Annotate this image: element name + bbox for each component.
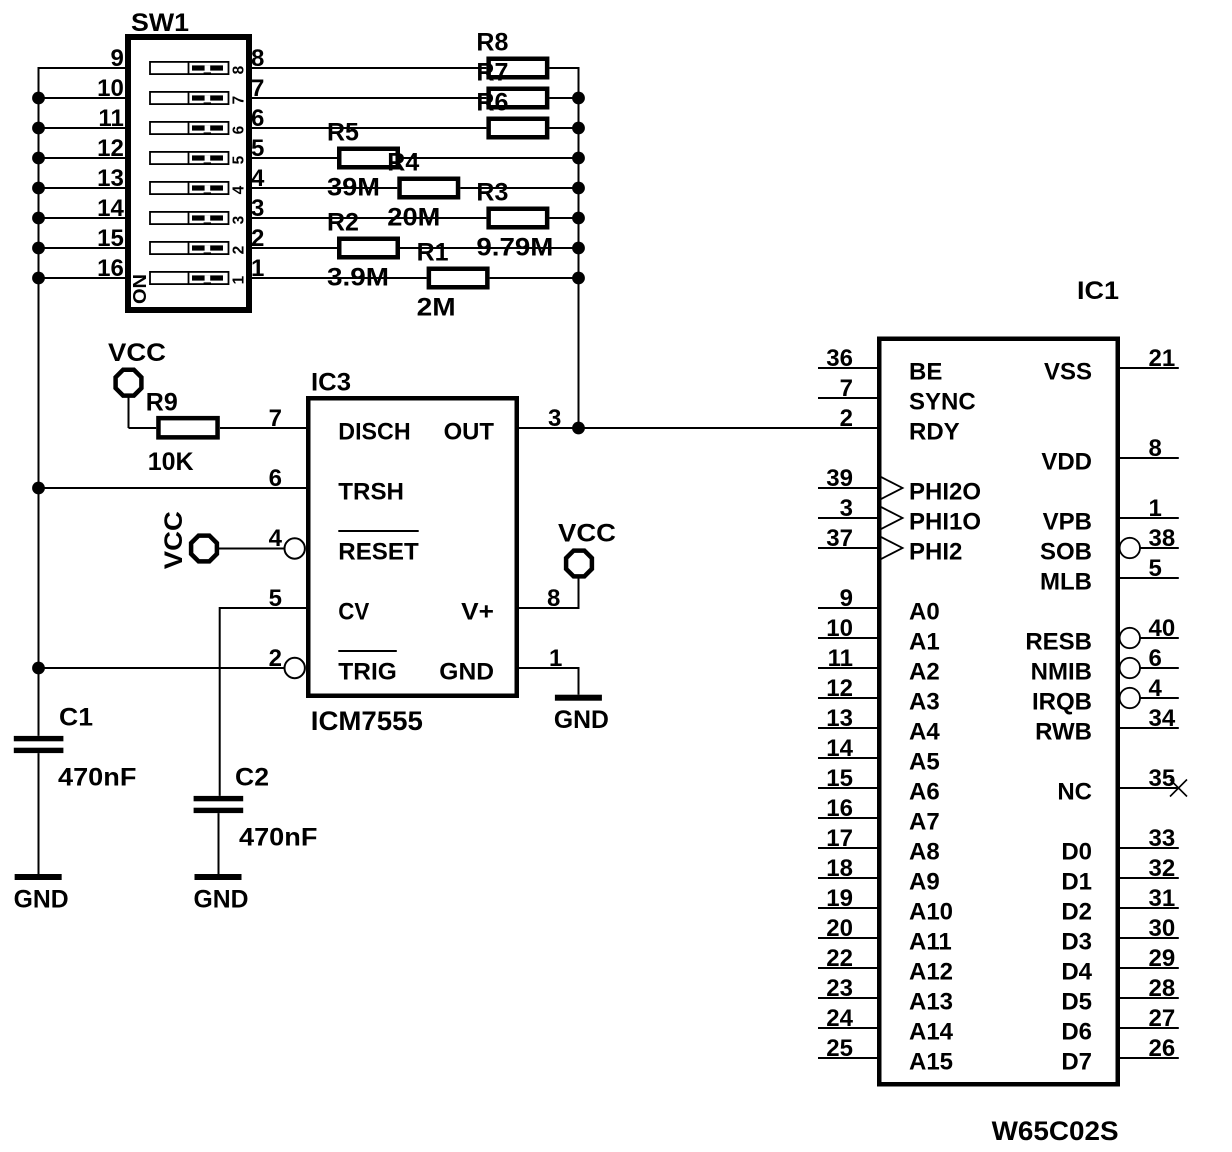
svg-text:39M: 39M <box>327 174 380 202</box>
svg-text:8: 8 <box>231 65 248 74</box>
IC1 pin 17 (A8) <box>818 825 940 865</box>
wire: CV pin 5 corner from C2 <box>220 607 306 609</box>
wire: resistor to right bus (row 8) <box>549 67 579 69</box>
svg-text:RDY: RDY <box>909 418 960 445</box>
IC1 pin 6 (NMIB) <box>1031 645 1179 685</box>
svg-text:23: 23 <box>826 975 853 1002</box>
wire: SW1 pin 8 to resistor <box>252 67 486 69</box>
svg-text:7: 7 <box>840 375 853 402</box>
wire: resistor to right bus (row 1) <box>490 277 580 279</box>
svg-text:VCC: VCC <box>108 339 166 367</box>
svg-text:8: 8 <box>1149 435 1162 462</box>
svg-text:VCC: VCC <box>558 520 616 548</box>
IC1 pin 1 (VPB) <box>1043 495 1179 535</box>
wire: SW1 pin 6 to resistor <box>252 127 486 129</box>
junction dot on right bus <box>572 152 585 165</box>
svg-text:3: 3 <box>231 215 248 224</box>
svg-text:C1: C1 <box>59 704 93 732</box>
svg-text:CV: CV <box>338 598 369 625</box>
svg-text:18: 18 <box>826 855 853 882</box>
svg-text:VPB: VPB <box>1043 508 1092 535</box>
junction dot on right bus <box>572 122 585 135</box>
IC1 pin 18 (A9) <box>818 855 940 895</box>
svg-text:W65C02S: W65C02S <box>992 1116 1119 1146</box>
svg-text:10: 10 <box>97 75 124 102</box>
junction dot on left bus <box>32 152 45 165</box>
wire: resistor to right bus (row 2) <box>400 247 580 249</box>
junction dot on left bus <box>32 212 45 225</box>
svg-text:13: 13 <box>826 705 853 732</box>
IC1 pin 36 (BE) <box>818 345 942 385</box>
svg-text:A7: A7 <box>909 808 940 835</box>
svg-text:A11: A11 <box>909 928 952 955</box>
svg-text:24: 24 <box>826 1005 853 1032</box>
IC1 pin 10 (A1) <box>818 615 940 655</box>
svg-text:30: 30 <box>1149 915 1176 942</box>
svg-text:PHI2: PHI2 <box>909 538 962 565</box>
power flag VCC (V+) <box>558 520 616 577</box>
wire: left bus to IC3 TRIG pin 2 <box>39 667 285 669</box>
svg-text:SOB: SOB <box>1040 538 1092 565</box>
IC1 pin 39 (PHI2O) <box>818 465 981 505</box>
resistor R8 <box>476 29 547 78</box>
IC1 pin 31 (D2) <box>1061 885 1178 925</box>
IC1 pin 3 (PHI1O) <box>818 495 981 535</box>
junction dot on right bus <box>572 92 585 105</box>
IC1 pin 5 (MLB) <box>1040 555 1179 595</box>
wire: VCC to RESET bubble <box>218 548 285 550</box>
IC1 pin 28 (D5) <box>1061 975 1178 1015</box>
svg-text:3.9M: 3.9M <box>327 264 389 292</box>
svg-text:20: 20 <box>826 915 853 942</box>
svg-text:470nF: 470nF <box>58 764 136 792</box>
svg-text:NMIB: NMIB <box>1031 658 1092 685</box>
svg-text:4: 4 <box>231 185 248 194</box>
junction dot at TRSH node <box>32 482 45 495</box>
junction dot on left bus <box>32 272 45 285</box>
svg-text:R4: R4 <box>387 149 419 177</box>
junction dot on left bus <box>32 182 45 195</box>
svg-text:C2: C2 <box>235 764 269 792</box>
svg-text:11: 11 <box>98 105 123 132</box>
resistor R3 <box>476 179 553 262</box>
svg-text:6: 6 <box>1149 645 1162 672</box>
wire: left bus to IC3 TRSH pin 6 <box>39 487 307 489</box>
wire: left vertical bus from SW1 row9 down to C1 <box>38 67 40 736</box>
svg-text:16: 16 <box>826 795 853 822</box>
IC3 pin name TRIG with overline <box>338 651 397 685</box>
svg-text:VDD: VDD <box>1041 448 1092 475</box>
IC3 TRIG inversion bubble <box>285 658 305 678</box>
svg-text:9.79M: 9.79M <box>476 234 553 262</box>
svg-text:D2: D2 <box>1061 898 1092 925</box>
junction dot on left bus <box>32 92 45 105</box>
svg-text:2: 2 <box>840 405 853 432</box>
wire: left bus to SW1 pin 15 <box>39 247 126 249</box>
svg-text:1: 1 <box>231 275 248 284</box>
ground symbol (C1) <box>14 874 69 914</box>
svg-text:R8: R8 <box>476 29 508 57</box>
svg-text:15: 15 <box>97 225 124 252</box>
svg-text:A1: A1 <box>909 628 940 655</box>
svg-text:D6: D6 <box>1061 1018 1092 1045</box>
wire: left bus to SW1 pin 10 <box>39 97 126 99</box>
svg-text:5: 5 <box>231 155 248 164</box>
wire: SW1 pin 2 to resistor <box>252 247 337 249</box>
svg-text:R7: R7 <box>476 59 508 87</box>
svg-text:35: 35 <box>1149 765 1176 792</box>
svg-text:5: 5 <box>1149 555 1162 582</box>
resistor R9 <box>146 389 218 477</box>
svg-text:26: 26 <box>1149 1035 1176 1062</box>
svg-text:IRQB: IRQB <box>1032 688 1092 715</box>
resistor R7 <box>476 59 547 108</box>
svg-text:RESET: RESET <box>338 538 419 565</box>
resistor R1 <box>417 239 488 322</box>
svg-text:17: 17 <box>826 825 853 852</box>
svg-text:16: 16 <box>97 255 124 282</box>
svg-text:IC1: IC1 <box>1077 277 1119 305</box>
svg-text:A5: A5 <box>909 748 940 775</box>
svg-text:ON: ON <box>130 274 150 304</box>
ground symbol (C2) <box>194 874 249 914</box>
svg-text:1: 1 <box>1149 495 1162 522</box>
IC1 pin 2 (RDY) <box>840 405 960 445</box>
wire: resistor to right bus (row 3) <box>549 217 579 219</box>
svg-text:A3: A3 <box>909 688 940 715</box>
IC1 pin 29 (D4) <box>1061 945 1178 985</box>
svg-text:TRSH: TRSH <box>338 478 404 505</box>
SW1 switch element 1 <box>150 272 229 284</box>
IC1 pin 16 (A7) <box>818 795 940 835</box>
svg-text:20M: 20M <box>387 204 440 232</box>
svg-text:12: 12 <box>97 135 124 162</box>
svg-text:D1: D1 <box>1061 868 1092 895</box>
svg-text:RESB: RESB <box>1025 628 1092 655</box>
svg-text:38: 38 <box>1149 525 1176 552</box>
wire: left bus to SW1 pin 12 <box>39 157 126 159</box>
svg-text:A10: A10 <box>909 898 953 925</box>
svg-text:37: 37 <box>826 525 853 552</box>
power flag VCC (top left) <box>108 339 166 396</box>
IC1 pin 22 (A12) <box>818 945 953 985</box>
wire: SW1 pin 5 to resistor <box>252 157 337 159</box>
wire: SW1 pin 3 to resistor <box>252 217 486 219</box>
wire: IC3 V+ pin 8 to VCC <box>519 607 580 609</box>
IC1 pin 32 (D1) <box>1061 855 1178 895</box>
wire: left bus to SW1 pin 14 <box>39 217 126 219</box>
svg-text:22: 22 <box>826 945 853 972</box>
svg-text:PHI2O: PHI2O <box>909 478 981 505</box>
svg-text:2: 2 <box>231 246 248 255</box>
svg-text:GND: GND <box>554 706 609 734</box>
svg-text:PHI1O: PHI1O <box>909 508 981 535</box>
wire: SW1 pin 1 to resistor <box>252 277 427 279</box>
wire: C2 to GND <box>218 813 220 874</box>
SW1 switch element 2 <box>150 242 229 254</box>
svg-text:A2: A2 <box>909 658 940 685</box>
svg-text:MLB: MLB <box>1040 568 1092 595</box>
IC1 pin 11 (A2) <box>818 645 940 685</box>
svg-text:GND: GND <box>439 658 494 685</box>
SW1 switch element 8 <box>150 62 229 74</box>
svg-text:13: 13 <box>97 165 124 192</box>
svg-text:VCC: VCC <box>160 511 188 569</box>
svg-text:D0: D0 <box>1061 838 1092 865</box>
wire: resistor to right bus (row 7) <box>549 97 579 99</box>
svg-text:A12: A12 <box>909 958 953 985</box>
junction dot on right bus <box>572 212 585 225</box>
svg-text:3: 3 <box>840 495 853 522</box>
junction dot on left bus <box>32 122 45 135</box>
IC1 pin 14 (A5) <box>818 735 940 775</box>
IC1 pin 33 (D0) <box>1061 825 1178 865</box>
capacitor C1 <box>14 704 137 792</box>
svg-text:D5: D5 <box>1061 988 1092 1015</box>
svg-text:470nF: 470nF <box>239 824 317 852</box>
svg-text:GND: GND <box>194 886 249 914</box>
resistor R6 <box>476 89 547 138</box>
wire: resistor to right bus (row 6) <box>549 127 579 129</box>
junction dot on right bus <box>572 242 585 255</box>
svg-text:R2: R2 <box>327 209 359 237</box>
junction dot on right bus <box>572 272 585 285</box>
svg-text:10K: 10K <box>148 448 194 476</box>
svg-text:14: 14 <box>97 195 124 222</box>
wire: IC3 OUT pin 3 to IC1 RDY pin 2 <box>519 427 877 429</box>
svg-text:A9: A9 <box>909 868 940 895</box>
wire: left bus to SW1 pin 13 <box>39 187 126 189</box>
resistor R5 <box>327 119 398 202</box>
IC1 pin 40 (RESB) <box>1025 615 1178 655</box>
svg-text:33: 33 <box>1149 825 1176 852</box>
svg-text:25: 25 <box>826 1035 853 1062</box>
svg-text:2M: 2M <box>417 294 456 322</box>
wire: left bus to SW1 pin 16 <box>39 277 126 279</box>
svg-text:IC3: IC3 <box>311 369 351 397</box>
wire: resistor to right bus (row 4) <box>460 187 579 189</box>
IC1 pin 37 (PHI2) <box>818 525 962 565</box>
svg-text:RWB: RWB <box>1035 718 1092 745</box>
SW1 switch element 6 <box>150 122 229 134</box>
svg-text:A8: A8 <box>909 838 940 865</box>
svg-text:40: 40 <box>1149 615 1176 642</box>
junction dot on right bus <box>572 182 585 195</box>
power flag VCC (RESET) <box>160 511 217 569</box>
IC1 pin 12 (A3) <box>818 675 940 715</box>
IC1 pin 4 (IRQB) <box>1032 675 1179 715</box>
svg-text:SYNC: SYNC <box>909 388 976 415</box>
svg-text:V+: V+ <box>461 598 494 625</box>
processor IC1 W65C02S body <box>879 339 1118 1085</box>
IC1 pin 15 (A6) <box>818 765 940 805</box>
IC1 pin 26 (D7) <box>1061 1035 1178 1075</box>
wire: VCC to R9 <box>128 397 130 429</box>
IC1 pin 8 (VDD) <box>1041 435 1178 475</box>
wire: resistor to right bus (row 5) <box>400 157 580 159</box>
svg-text:39: 39 <box>826 465 853 492</box>
IC1 pin 25 (A15) <box>818 1035 953 1075</box>
junction dot at OUT node <box>572 422 585 435</box>
svg-text:SW1: SW1 <box>131 9 189 37</box>
svg-text:OUT: OUT <box>444 418 495 445</box>
svg-text:21: 21 <box>1149 345 1176 372</box>
svg-text:A14: A14 <box>909 1018 954 1045</box>
svg-text:VSS: VSS <box>1044 358 1092 385</box>
resistor R2 <box>327 209 398 292</box>
IC1 pin 27 (D6) <box>1061 1005 1178 1045</box>
IC1 pin 35 (NC) <box>1057 765 1187 805</box>
resistor R4 <box>387 149 458 232</box>
wire: R9 to IC3 pin 7 <box>220 427 306 429</box>
svg-text:11: 11 <box>828 645 853 672</box>
svg-text:31: 31 <box>1149 885 1176 912</box>
svg-text:A0: A0 <box>909 598 940 625</box>
IC1 pin 23 (A13) <box>818 975 953 1015</box>
svg-text:A6: A6 <box>909 778 940 805</box>
svg-text:A4: A4 <box>909 718 940 745</box>
svg-text:D7: D7 <box>1061 1048 1092 1075</box>
IC1 pin 9 (A0) <box>818 585 940 625</box>
svg-text:14: 14 <box>826 735 853 762</box>
IC1 pin 20 (A11) <box>818 915 952 955</box>
svg-text:R9: R9 <box>146 389 178 417</box>
svg-text:D4: D4 <box>1061 958 1092 985</box>
SW1 switch element 5 <box>150 152 229 164</box>
svg-text:NC: NC <box>1057 778 1092 805</box>
svg-text:29: 29 <box>1149 945 1176 972</box>
wire: right vertical bus down to OUT node <box>578 67 580 428</box>
svg-text:TRIG: TRIG <box>338 658 397 685</box>
svg-text:15: 15 <box>826 765 853 792</box>
svg-text:DISCH: DISCH <box>338 418 410 445</box>
svg-text:9: 9 <box>840 585 853 612</box>
svg-text:10: 10 <box>826 615 853 642</box>
junction dot at TRIG node <box>32 662 45 675</box>
IC1 pin 30 (D3) <box>1061 915 1178 955</box>
junction dot on left bus <box>32 242 45 255</box>
svg-text:36: 36 <box>826 345 853 372</box>
IC3 RESET inversion bubble <box>285 538 305 558</box>
svg-text:27: 27 <box>1149 1005 1176 1032</box>
SW1 switch element 7 <box>150 92 229 104</box>
svg-text:GND: GND <box>14 886 69 914</box>
IC1 pin 38 (SOB) <box>1040 525 1179 565</box>
svg-text:R3: R3 <box>476 179 508 207</box>
wire: SW1 pin 7 to resistor <box>252 97 486 99</box>
wire: left bus to SW1 pin 9 <box>39 67 126 69</box>
SW1 switch element 3 <box>150 212 229 224</box>
wire: SW1 pin 4 to resistor <box>252 187 397 189</box>
timer IC3 ICM7555 body <box>308 398 517 696</box>
DIP switch SW1 body <box>128 37 249 310</box>
svg-text:ICM7555: ICM7555 <box>311 706 423 736</box>
svg-text:A15: A15 <box>909 1048 953 1075</box>
svg-text:BE: BE <box>909 358 942 385</box>
svg-text:6: 6 <box>231 125 248 134</box>
svg-text:32: 32 <box>1149 855 1176 882</box>
IC1 pin 13 (A4) <box>818 705 940 745</box>
IC3 pin name RESET with overline <box>338 531 419 565</box>
IC1 pin 34 (RWB) <box>1035 705 1179 745</box>
svg-text:9: 9 <box>110 45 123 72</box>
svg-text:12: 12 <box>826 675 853 702</box>
IC1 pin 19 (A10) <box>818 885 953 925</box>
svg-text:A13: A13 <box>909 988 953 1015</box>
IC1 pin 7 (SYNC) <box>818 375 976 415</box>
capacitor C2 <box>194 764 318 852</box>
IC1 pin 24 (A14) <box>818 1005 954 1045</box>
svg-text:28: 28 <box>1149 975 1176 1002</box>
svg-text:7: 7 <box>269 405 282 432</box>
svg-text:4: 4 <box>1149 675 1163 702</box>
svg-text:R5: R5 <box>327 119 359 147</box>
svg-text:19: 19 <box>826 885 853 912</box>
SW1 switch element 4 <box>150 182 229 194</box>
svg-text:D3: D3 <box>1061 928 1092 955</box>
ground symbol (IC3 pin 1) <box>554 695 609 735</box>
wire: IC3 GND pin 1 to GND symbol <box>519 667 580 669</box>
wire: left bus to SW1 pin 11 <box>39 127 126 129</box>
svg-text:34: 34 <box>1149 705 1176 732</box>
IC1 pin 21 (VSS) <box>1044 345 1179 385</box>
wire: C1 to GND <box>38 753 40 874</box>
svg-text:7: 7 <box>231 96 248 105</box>
svg-text:R6: R6 <box>476 89 508 117</box>
svg-text:R1: R1 <box>417 239 449 267</box>
no-connect X marker <box>1170 780 1187 797</box>
